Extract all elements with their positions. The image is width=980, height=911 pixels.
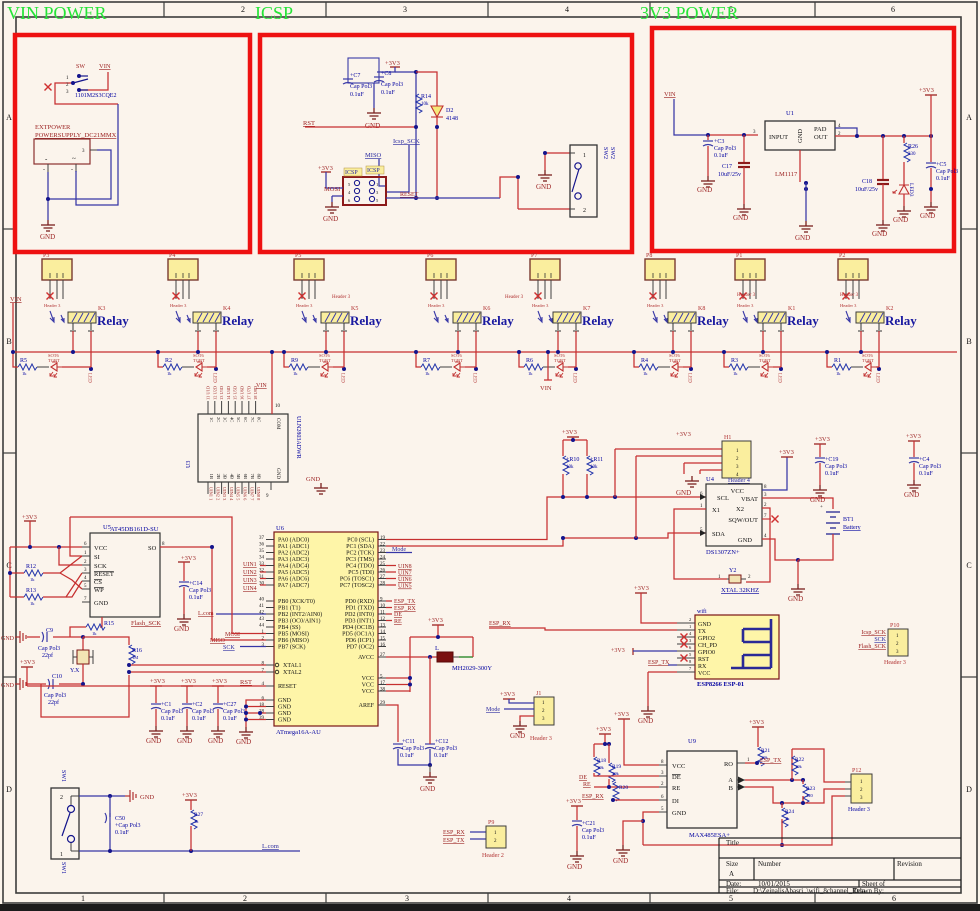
svg-text:+Cap Pol3: +Cap Pol3 <box>115 823 141 829</box>
svg-text:GND: GND <box>278 718 292 724</box>
svg-text:MOSI: MOSI <box>324 186 340 193</box>
svg-text:PC3 (TMS): PC3 (TMS) <box>346 556 374 563</box>
svg-text:PA3 (ADC3): PA3 (ADC3) <box>278 556 309 563</box>
svg-text:GND: GND <box>893 216 908 224</box>
svg-text:39: 39 <box>259 716 265 721</box>
svg-text:SW2: SW2 <box>609 147 615 159</box>
svg-text:ESP8266 ESP-01: ESP8266 ESP-01 <box>697 681 744 688</box>
svg-text:GND: GND <box>1 683 15 689</box>
svg-text:6: 6 <box>891 5 895 14</box>
svg-text:Header 3: Header 3 <box>840 293 859 298</box>
svg-text:0.1uF: 0.1uF <box>434 753 449 759</box>
svg-text:+C19: +C19 <box>825 457 838 463</box>
svg-text:L.com: L.com <box>262 843 279 850</box>
svg-text:Header 3: Header 3 <box>505 295 524 300</box>
svg-text:R18: R18 <box>597 758 606 764</box>
svg-text:R1: R1 <box>834 358 841 364</box>
svg-text:R14: R14 <box>421 94 431 100</box>
svg-text:RO: RO <box>724 761 733 768</box>
svg-text:11 U1D: 11 U1D <box>206 386 211 400</box>
svg-text:GND: GND <box>510 732 525 740</box>
svg-text:Header 2: Header 2 <box>482 853 504 859</box>
svg-text:8B: 8B <box>257 474 262 479</box>
svg-text:37: 37 <box>259 536 265 541</box>
svg-text:22pf: 22pf <box>42 652 53 659</box>
svg-text:29: 29 <box>380 701 386 706</box>
svg-text:+R10: +R10 <box>566 457 579 463</box>
svg-text:1: 1 <box>81 894 85 903</box>
svg-text:PD2 (INT0): PD2 (INT0) <box>345 611 374 618</box>
svg-text:26: 26 <box>380 569 386 574</box>
svg-text:0.1uF: 0.1uF <box>381 90 396 96</box>
svg-text:Icsp_SCK: Icsp_SCK <box>861 630 886 636</box>
svg-text:+C4: +C4 <box>919 457 929 463</box>
svg-text:+R11: +R11 <box>590 457 603 463</box>
svg-text:GND: GND <box>872 230 887 238</box>
svg-text:PA6 (ADC6): PA6 (ADC6) <box>278 576 309 583</box>
svg-text:R26: R26 <box>908 144 918 150</box>
svg-text:+C3: +C3 <box>714 139 724 145</box>
svg-text:PD0 (RXD): PD0 (RXD) <box>345 598 374 605</box>
svg-text:U9: U9 <box>688 738 696 745</box>
svg-text:PC5 (TDI): PC5 (TDI) <box>348 569 374 576</box>
svg-text:Cap Pol3: Cap Pol3 <box>919 464 941 470</box>
svg-text:27: 27 <box>380 653 386 658</box>
svg-text:GND: GND <box>323 215 338 223</box>
svg-text:1: 1 <box>583 153 586 159</box>
svg-text:VCC: VCC <box>731 488 744 495</box>
svg-text:U6: U6 <box>276 525 285 532</box>
svg-text:+C11: +C11 <box>402 739 415 745</box>
svg-text:14: 14 <box>380 630 386 635</box>
svg-text:GND: GND <box>676 489 691 497</box>
svg-text:SCK: SCK <box>94 563 107 570</box>
svg-text:0.1uF: 0.1uF <box>936 176 951 182</box>
svg-text:2C: 2C <box>216 417 221 422</box>
svg-text:1: 1 <box>689 624 691 629</box>
svg-text:+3V3: +3V3 <box>428 617 443 624</box>
svg-text:UIN1: UIN1 <box>243 562 257 568</box>
svg-text:+3V3: +3V3 <box>182 792 197 799</box>
svg-text:VCC: VCC <box>672 763 685 770</box>
svg-text:34: 34 <box>259 556 265 561</box>
svg-text:P12: P12 <box>852 768 861 774</box>
svg-text:PAD: PAD <box>814 126 827 133</box>
svg-text:GND: GND <box>697 186 712 194</box>
svg-text:ESP_TX: ESP_TX <box>443 838 465 844</box>
svg-text:RESET: RESET <box>278 684 297 690</box>
svg-text:2: 2 <box>583 208 586 214</box>
svg-text:U3: U3 <box>186 461 192 468</box>
svg-text:R2: R2 <box>165 358 172 364</box>
svg-text:+3V3: +3V3 <box>634 585 649 592</box>
svg-text:VIN: VIN <box>256 383 267 389</box>
svg-text:25: 25 <box>380 562 386 567</box>
svg-text:PB6 (MISO): PB6 (MISO) <box>278 637 309 644</box>
svg-text:R12: R12 <box>26 564 36 570</box>
svg-text:GND: GND <box>146 737 161 745</box>
svg-text:C: C <box>966 561 971 570</box>
svg-text:1k: 1k <box>194 819 199 824</box>
svg-text:GND: GND <box>638 717 653 725</box>
svg-text:Title: Title <box>726 839 739 847</box>
svg-text:1C: 1C <box>209 417 214 422</box>
svg-text:Cap Pol3: Cap Pol3 <box>192 709 214 715</box>
svg-text:33: 33 <box>259 562 265 567</box>
svg-text:1k: 1k <box>528 371 533 376</box>
svg-text:R3: R3 <box>731 358 738 364</box>
svg-text:13 U3D: 13 U3D <box>219 386 224 400</box>
svg-text:Relay: Relay <box>582 313 614 328</box>
svg-text:C18: C18 <box>862 179 872 185</box>
svg-text:GND: GND <box>788 595 803 603</box>
svg-text:R20: R20 <box>619 785 628 791</box>
svg-text:1k: 1k <box>425 371 430 376</box>
svg-text:UIN6: UIN6 <box>398 577 412 583</box>
svg-text:ICSP: ICSP <box>367 168 380 174</box>
svg-text:1k: 1k <box>836 371 841 376</box>
svg-text:K3: K3 <box>98 306 105 312</box>
svg-text:13: 13 <box>380 624 386 629</box>
svg-text:PC4 (TDO): PC4 (TDO) <box>346 563 374 570</box>
svg-text:DS1307ZN+: DS1307ZN+ <box>706 549 740 556</box>
svg-text:PD4 (OC1B): PD4 (OC1B) <box>342 624 374 631</box>
svg-text:GND: GND <box>904 491 919 499</box>
svg-text:ESP_RX: ESP_RX <box>443 830 465 836</box>
svg-text:2: 2 <box>689 617 691 622</box>
svg-text:1k: 1k <box>733 371 738 376</box>
svg-text:SO: SO <box>148 545 157 552</box>
svg-text:Battery: Battery <box>843 525 861 531</box>
svg-text:0.1uF: 0.1uF <box>582 835 597 841</box>
svg-text:RST: RST <box>303 120 315 127</box>
svg-text:0.1uF: 0.1uF <box>919 471 934 477</box>
svg-text:A: A <box>966 113 972 122</box>
svg-text:UIN5 5: UIN5 5 <box>236 487 241 501</box>
svg-text:+C21: +C21 <box>582 821 595 827</box>
svg-text:Relay: Relay <box>885 313 917 328</box>
svg-text:Relay: Relay <box>350 313 382 328</box>
svg-text:PB3 (OC0/AIN1): PB3 (OC0/AIN1) <box>278 618 321 625</box>
svg-text:K8: K8 <box>698 306 705 312</box>
svg-text:UIN4: UIN4 <box>243 586 257 592</box>
svg-text:B: B <box>966 337 971 346</box>
svg-text:10: 10 <box>380 604 386 609</box>
svg-text:+3V3: +3V3 <box>566 798 581 805</box>
svg-text:GND: GND <box>306 476 320 483</box>
svg-text:+C12: +C12 <box>435 739 448 745</box>
svg-text:42: 42 <box>259 611 265 616</box>
svg-text:wifi: wifi <box>697 608 707 615</box>
svg-text:+3V3: +3V3 <box>20 659 35 666</box>
svg-text:+3V3: +3V3 <box>815 436 830 443</box>
svg-text:LED: LED <box>777 373 782 383</box>
svg-text:GND: GND <box>140 794 154 801</box>
svg-text:AREF: AREF <box>359 703 375 709</box>
svg-text:SCK: SCK <box>874 637 886 643</box>
svg-text:PA4 (ADC4): PA4 (ADC4) <box>278 563 309 570</box>
svg-text:Mode: Mode <box>486 707 500 713</box>
svg-text:POWERSUPPLY_DC21MMX: POWERSUPPLY_DC21MMX <box>35 132 117 139</box>
svg-text:1k: 1k <box>22 371 27 376</box>
svg-text:5C: 5C <box>236 417 241 422</box>
svg-text:SQW/OUT: SQW/OUT <box>728 517 758 524</box>
svg-text:TX: TX <box>698 629 707 635</box>
svg-text:R9: R9 <box>291 358 298 364</box>
svg-text:LM1117: LM1117 <box>775 171 798 178</box>
svg-text:Cap Pol3: Cap Pol3 <box>825 464 847 470</box>
svg-text:Cap Pol3: Cap Pol3 <box>350 84 372 90</box>
svg-text:0.1uF: 0.1uF <box>223 716 238 722</box>
svg-text:X2: X2 <box>736 506 744 513</box>
svg-text:+: + <box>820 505 823 510</box>
svg-text:1: 1 <box>60 852 63 858</box>
svg-text:0.1uF: 0.1uF <box>714 153 729 159</box>
svg-text:32: 32 <box>259 569 265 574</box>
svg-text:LED: LED <box>212 373 217 383</box>
svg-text:14 U4D: 14 U4D <box>226 386 231 400</box>
svg-text:DE: DE <box>394 612 402 618</box>
svg-text:5: 5 <box>729 894 733 903</box>
svg-text:R21: R21 <box>761 748 770 754</box>
svg-text:0.1uF: 0.1uF <box>350 92 365 98</box>
svg-text:2: 2 <box>241 5 245 14</box>
svg-text:24: 24 <box>380 556 386 561</box>
svg-text:R13: R13 <box>26 588 36 594</box>
svg-text:D:\ZeinalisAbasri..\wifi_8chan: D:\ZeinalisAbasri..\wifi_8channel_Rela <box>753 887 866 895</box>
svg-text:K6: K6 <box>483 306 490 312</box>
svg-text:LED: LED <box>687 373 692 383</box>
svg-text:4: 4 <box>565 5 569 14</box>
svg-text:0.1uF: 0.1uF <box>161 716 176 722</box>
svg-text:1k: 1k <box>167 371 172 376</box>
svg-text:10k: 10k <box>590 465 598 470</box>
svg-text:+3V3: +3V3 <box>906 433 921 440</box>
svg-text:RST: RST <box>240 679 252 686</box>
svg-text:EXTPOWER: EXTPOWER <box>35 124 71 131</box>
svg-text:UIN7 7: UIN7 7 <box>249 487 254 501</box>
svg-text:41: 41 <box>259 604 265 609</box>
svg-text:C9: C9 <box>46 628 53 634</box>
svg-text:+3V3: +3V3 <box>676 431 691 438</box>
svg-text:WP: WP <box>94 587 104 594</box>
svg-text:1k: 1k <box>643 371 648 376</box>
svg-text:Drawn By:: Drawn By: <box>853 887 884 895</box>
svg-text:28: 28 <box>380 582 386 587</box>
svg-text:Relay: Relay <box>787 313 819 328</box>
svg-text:PD6 (ICP1): PD6 (ICP1) <box>345 637 374 644</box>
svg-text:10k: 10k <box>597 765 605 770</box>
svg-text:VIN: VIN <box>10 296 22 303</box>
svg-text:AVCC: AVCC <box>358 655 374 661</box>
svg-text:ICSP: ICSP <box>345 170 358 176</box>
svg-text:RE: RE <box>583 782 591 788</box>
svg-text:LED3: LED3 <box>908 183 914 197</box>
svg-text:Header 3: Header 3 <box>884 660 906 666</box>
svg-text:GND: GND <box>795 234 810 242</box>
svg-text:22: 22 <box>380 543 386 548</box>
svg-text:R7: R7 <box>423 358 430 364</box>
svg-text:-: - <box>71 167 73 173</box>
svg-text:15: 15 <box>380 637 386 642</box>
svg-text:PA1 (ADC1): PA1 (ADC1) <box>278 543 309 550</box>
svg-text:PA7 (ADC7): PA7 (ADC7) <box>278 582 309 589</box>
svg-text:GND: GND <box>94 600 108 607</box>
svg-text:PC1 (SDA): PC1 (SDA) <box>346 543 374 550</box>
svg-text:SW1: SW1 <box>60 862 66 874</box>
svg-text:1k: 1k <box>92 631 97 636</box>
svg-text:3V3 POWER: 3V3 POWER <box>640 3 739 23</box>
svg-text:0.1uF: 0.1uF <box>192 716 207 722</box>
svg-text:PD7 (OC2): PD7 (OC2) <box>346 644 374 651</box>
svg-text:6: 6 <box>892 894 896 903</box>
svg-text:GND: GND <box>733 214 748 222</box>
svg-text:0.1uF: 0.1uF <box>115 830 130 836</box>
svg-text:10uF/25v: 10uF/25v <box>718 172 741 178</box>
svg-text:C50: C50 <box>115 816 125 822</box>
svg-text:Relay: Relay <box>222 313 254 328</box>
svg-text:3C: 3C <box>223 417 228 422</box>
svg-text:D2: D2 <box>446 108 453 114</box>
svg-text:R22: R22 <box>795 757 804 763</box>
svg-text:ESP_RX: ESP_RX <box>582 794 604 800</box>
svg-text:120: 120 <box>806 793 814 798</box>
svg-text:1: 1 <box>376 182 378 187</box>
svg-text:RX: RX <box>698 664 707 670</box>
svg-text:10k: 10k <box>421 102 429 107</box>
svg-text:K2: K2 <box>886 306 893 312</box>
svg-text:+3V3: +3V3 <box>212 678 227 685</box>
svg-text:1101M2S3CQE2: 1101M2S3CQE2 <box>75 93 116 99</box>
svg-text:LED: LED <box>572 373 577 383</box>
svg-text:R4: R4 <box>641 358 648 364</box>
svg-text:XTAL1: XTAL1 <box>283 663 302 669</box>
svg-text:MISO: MISO <box>365 152 382 159</box>
svg-text:Relay: Relay <box>697 313 729 328</box>
svg-text:A: A <box>729 870 734 878</box>
svg-text:Cap Pol3: Cap Pol3 <box>223 709 245 715</box>
svg-text:RESET: RESET <box>94 571 114 578</box>
svg-text:XTAL2: XTAL2 <box>283 670 302 676</box>
svg-text:P1: P1 <box>736 253 742 259</box>
svg-text:PC0 (SCL): PC0 (SCL) <box>347 537 374 544</box>
svg-text:PD1 (TXD): PD1 (TXD) <box>346 605 375 612</box>
svg-text:A: A <box>728 777 733 784</box>
svg-text:P10: P10 <box>890 623 899 629</box>
svg-text:Relay: Relay <box>482 313 514 328</box>
svg-text:UIN8 8: UIN8 8 <box>256 487 261 501</box>
svg-text:0.1uF: 0.1uF <box>825 471 840 477</box>
svg-text:PB4 (SS): PB4 (SS) <box>278 624 301 631</box>
svg-text:SW2: SW2 <box>602 147 608 159</box>
svg-text:330: 330 <box>908 152 916 157</box>
svg-text:Flash_SCK: Flash_SCK <box>858 644 886 650</box>
svg-text:GND: GND <box>920 212 935 220</box>
svg-text:DI: DI <box>672 798 679 805</box>
svg-text:GND: GND <box>278 711 292 717</box>
svg-text:Cap Pol3: Cap Pol3 <box>381 82 403 88</box>
svg-text:11: 11 <box>380 611 385 616</box>
svg-text:22pf: 22pf <box>48 699 59 706</box>
svg-text:XTAL 32KHZ: XTAL 32KHZ <box>721 587 759 594</box>
svg-text:Number: Number <box>758 860 782 868</box>
svg-text:38: 38 <box>380 688 386 693</box>
svg-text:43: 43 <box>259 617 265 622</box>
svg-text:PD3 (INT1): PD3 (INT1) <box>345 618 374 625</box>
svg-text:GPIO2: GPIO2 <box>698 636 715 642</box>
svg-text:+3V3: +3V3 <box>318 165 333 172</box>
svg-text:10k: 10k <box>566 465 574 470</box>
svg-text:1k: 1k <box>293 371 298 376</box>
svg-text:PC6 (TOSC1): PC6 (TOSC1) <box>340 576 374 583</box>
svg-text:+3V3: +3V3 <box>500 691 515 698</box>
svg-text:+C2: +C2 <box>192 702 202 708</box>
svg-text:VCC: VCC <box>698 671 710 677</box>
svg-text:K1: K1 <box>788 306 795 312</box>
svg-text:UIN8: UIN8 <box>398 564 412 570</box>
svg-text:ULN2803ADWR: ULN2803ADWR <box>295 416 301 459</box>
svg-text:P3: P3 <box>43 253 49 259</box>
svg-text:R5: R5 <box>20 358 27 364</box>
svg-text:UIN5: UIN5 <box>398 584 412 590</box>
svg-text:Cap Pol3: Cap Pol3 <box>714 146 736 152</box>
svg-text:PD5 (OC1A): PD5 (OC1A) <box>342 631 374 638</box>
svg-text:X1: X1 <box>712 507 720 514</box>
svg-text:R27: R27 <box>194 812 203 818</box>
svg-text:VIN: VIN <box>99 63 111 70</box>
svg-text:GND: GND <box>275 468 280 479</box>
svg-text:C10: C10 <box>52 674 62 680</box>
svg-text:SI: SI <box>94 554 100 561</box>
svg-text:1k: 1k <box>785 816 790 821</box>
svg-text:GND: GND <box>797 129 804 143</box>
svg-text:ESP_RX: ESP_RX <box>489 621 511 627</box>
svg-text:2: 2 <box>243 894 247 903</box>
svg-text:Header 3: Header 3 <box>737 293 756 298</box>
svg-text:27: 27 <box>380 575 386 580</box>
svg-text:-: - <box>43 167 45 173</box>
svg-text:23: 23 <box>380 549 386 554</box>
svg-text:10: 10 <box>275 404 281 409</box>
svg-text:PB1 (T1): PB1 (T1) <box>278 605 301 612</box>
svg-text:PA5 (ADC5): PA5 (ADC5) <box>278 569 309 576</box>
svg-text:12: 12 <box>380 617 386 622</box>
svg-text:INPUT: INPUT <box>769 134 788 141</box>
svg-text:GND: GND <box>1 636 15 642</box>
svg-text:GND: GND <box>738 537 752 544</box>
svg-text:+C5: +C5 <box>936 162 946 168</box>
svg-text:UIN3: UIN3 <box>243 578 257 584</box>
svg-text:RE: RE <box>672 785 680 792</box>
svg-text:Header 3: Header 3 <box>332 295 351 300</box>
svg-text:SW: SW <box>76 64 85 70</box>
svg-text:UIN2 2: UIN2 2 <box>215 487 220 500</box>
svg-text:R6: R6 <box>526 358 533 364</box>
svg-text:+3V3: +3V3 <box>779 449 794 456</box>
svg-text:Cap Pol3: Cap Pol3 <box>402 746 424 752</box>
svg-text:D: D <box>6 785 12 794</box>
svg-text:UIN4 4: UIN4 4 <box>229 487 234 501</box>
svg-text:GND: GND <box>365 122 380 130</box>
svg-text:UIN7: UIN7 <box>398 571 412 577</box>
svg-text:35: 35 <box>259 549 265 554</box>
svg-text:P8: P8 <box>646 253 652 259</box>
svg-text:L: L <box>435 645 439 652</box>
svg-text:COM: COM <box>275 418 280 430</box>
svg-text:J1: J1 <box>536 691 541 697</box>
svg-text:K7: K7 <box>583 306 590 312</box>
svg-text:UIN2: UIN2 <box>243 570 257 576</box>
